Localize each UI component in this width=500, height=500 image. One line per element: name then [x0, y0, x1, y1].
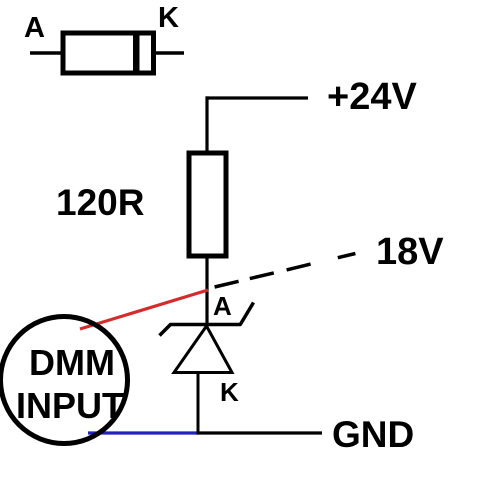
- wire: rail to resistor: [205, 96, 208, 152]
- diode package cathode band: [133, 33, 140, 73]
- dashed leader line to 18V (dash 2): [250, 273, 274, 279]
- red probe lead (DMM to node A): [80, 290, 208, 329]
- DMM probe circle: [1, 317, 128, 444]
- svg-text:A: A: [213, 291, 232, 321]
- wire: package left lead: [30, 51, 63, 55]
- zener bar left wing: [160, 324, 172, 336]
- dashed leader line to 18V (dash 1): [215, 281, 239, 287]
- svg-text:120R: 120R: [56, 182, 144, 223]
- wire: resistor to zener anode node: [205, 256, 208, 326]
- zener diode D2: [160, 303, 254, 373]
- resistor 120R: [189, 153, 226, 256]
- svg-text:K: K: [220, 377, 239, 407]
- zener bar right wing: [240, 303, 254, 326]
- svg-text:INPUT: INPUT: [16, 385, 124, 426]
- svg-text:K: K: [158, 2, 179, 34]
- diode package D1: [30, 33, 184, 73]
- diode package body: [63, 33, 154, 73]
- dashed leader line to 18V (dash 4): [338, 254, 356, 258]
- wire: ground rail: [197, 431, 323, 434]
- zener cathode bar: [170, 323, 241, 327]
- zener triangle: [174, 326, 232, 373]
- dashed leader line to 18V (dash 3): [287, 264, 311, 270]
- wire: +24V rail: [206, 96, 309, 99]
- svg-text:A: A: [24, 12, 45, 44]
- svg-text:18V: 18V: [376, 231, 444, 273]
- blue probe lead (DMM to ground): [88, 431, 199, 434]
- svg-text:DMM: DMM: [29, 342, 115, 383]
- svg-text:+24V: +24V: [327, 76, 417, 118]
- wire: zener to ground rail: [197, 374, 200, 434]
- wire: package right lead: [156, 51, 184, 55]
- svg-text:GND: GND: [332, 414, 414, 455]
